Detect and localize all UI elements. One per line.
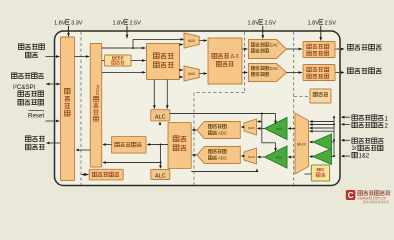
mux M2 (DAC select) <box>184 66 199 81</box>
wire HPF to PCM <box>103 144 112 146</box>
power domain dashed line 1 <box>80 32 82 185</box>
wire register config to control domain <box>82 174 89 176</box>
svg-text:MIC: MIC <box>316 167 325 172</box>
PGA amp B (right ADC) <box>265 146 288 168</box>
svg-text:ALC: ALC <box>155 173 166 179</box>
volume control block <box>168 122 191 168</box>
svg-text:MUX: MUX <box>188 72 196 76</box>
wires analog inputs <box>342 116 350 118</box>
wire volume to HPF <box>148 144 169 146</box>
wire engine to mux M1 <box>180 44 184 46</box>
wires bus into mic PGAs <box>332 141 335 143</box>
svg-text:PCM: PCM <box>95 85 100 95</box>
svg-text:2.5V: 2.5V <box>265 21 277 27</box>
wire PCM to BEEP <box>102 60 105 62</box>
mic PGA 1 <box>313 134 332 150</box>
wire to PGA B top <box>262 142 276 144</box>
wire volume control up to ALC <box>159 122 161 124</box>
svg-text:MUX: MUX <box>188 39 196 43</box>
multi-bit delta-sigma modulator <box>208 38 242 84</box>
svg-text:ADC: ADC <box>218 156 227 161</box>
wire mux MB to ADC2 <box>242 155 245 157</box>
wire modulator to DAC1 <box>242 48 248 50</box>
wire serial audio input <box>46 56 60 58</box>
signal processing engine <box>147 44 180 80</box>
label stereo input 1 <box>352 115 357 120</box>
svg-text:BEEP: BEEP <box>112 56 124 61</box>
BEEP generator <box>105 55 132 66</box>
wire PCM<-serial return <box>77 149 91 151</box>
svg-text:I²C&SPI: I²C&SPI <box>13 84 36 91</box>
PGA amp A (left ADC) <box>265 118 288 140</box>
svg-text:1.8V: 1.8V <box>248 21 260 27</box>
svg-text:3.3V: 3.3V <box>71 21 83 27</box>
wire right channel output <box>335 72 344 74</box>
wire engine down to ALC 1 <box>153 80 155 109</box>
svg-text:ADC: ADC <box>218 131 227 136</box>
wire ALC gain bus <box>170 113 276 115</box>
MIC bias block <box>311 165 329 181</box>
wire mic PGA1 to big mux <box>310 141 313 143</box>
wire left channel output <box>335 48 344 50</box>
svg-text:1.8V: 1.8V <box>113 21 125 27</box>
watermark logo eeworld <box>346 190 356 200</box>
wire mic PGA2 to big mux <box>310 156 313 158</box>
wire DAC2 to amp R <box>287 72 303 74</box>
ALC block top <box>151 110 170 121</box>
wire mux MA to ADC1 <box>242 126 245 128</box>
multi-bit oversampling ADC 1 <box>197 122 240 139</box>
svg-text:PGA: PGA <box>276 127 282 131</box>
wire mux M2 to modulator <box>199 73 207 75</box>
wires bus into big mux <box>310 121 334 123</box>
multi-bit oversampling ADC 2 <box>197 147 240 164</box>
wire DAC1 to amp L <box>287 48 303 50</box>
wire engine down to ALC 2 <box>166 80 168 109</box>
wire big mux out L to PGA A <box>289 128 296 130</box>
svg-text:Reset: Reset <box>28 113 44 120</box>
ground-centered headphone amp L <box>303 42 335 58</box>
svg-text:2.5V: 2.5V <box>130 21 142 27</box>
svg-text:MUX: MUX <box>248 155 255 159</box>
register configuration block <box>89 169 123 180</box>
chip outline U1 <box>55 31 341 186</box>
label hw mode / I2C&SPI sw mode control data <box>11 73 17 79</box>
serial interface block <box>61 37 75 181</box>
label right channel output <box>347 68 353 74</box>
wire big mux out R to PGA B <box>289 156 296 158</box>
svg-text:eeworld.com.cn: eeworld.com.cn <box>358 195 387 200</box>
wire ADC1 to volume control <box>193 129 198 131</box>
switched-capacitor DAC and filter 1 <box>249 40 287 59</box>
svg-text:DAC: DAC <box>270 66 279 71</box>
wire reset <box>46 120 60 122</box>
ground-centered headphone amp R <box>303 65 335 81</box>
power domain dashed line 2 <box>244 32 246 93</box>
mic PGA 2 <box>313 149 332 165</box>
wire bus up to mux M1 <box>132 39 134 48</box>
svg-text:3/: 3/ <box>352 146 357 152</box>
wire ADC2 to volume control <box>193 154 198 156</box>
mux M1 (DAC select) <box>184 33 199 48</box>
wire BEEP to engine <box>131 60 146 62</box>
wire PCM to engine (bus) <box>102 47 146 49</box>
wire mux M1 to modulator <box>199 40 207 42</box>
PCM interface block <box>90 44 101 168</box>
switched-capacitor DAC and filter 2 <box>249 64 287 82</box>
mux MB (ADC select R) <box>244 148 257 164</box>
wire serial audio output <box>47 142 60 144</box>
svg-text:1.8V: 1.8V <box>308 21 320 27</box>
mux MA (ADC select L) <box>244 119 257 135</box>
label stereo input 2 <box>352 122 357 127</box>
wire PGA B to mux MB <box>258 156 265 158</box>
label left channel output <box>347 44 353 50</box>
svg-text:DAC: DAC <box>270 42 279 47</box>
svg-text:ALC: ALC <box>155 114 166 120</box>
svg-text:MUX: MUX <box>248 126 255 130</box>
svg-text:2.5V: 2.5V <box>325 21 337 27</box>
wire tap to mux MA <box>261 114 263 143</box>
wire serial->PCM <box>75 56 90 58</box>
ALC block bottom <box>151 170 170 180</box>
wire down to ALC bottom <box>160 145 162 169</box>
svg-text:1&2: 1&2 <box>359 153 370 159</box>
label serial audio output <box>25 136 31 142</box>
wire MIC bias stub <box>305 173 312 175</box>
label serial audio input <box>18 44 24 50</box>
label stereo input 3 / mic input 1&2 <box>352 138 357 143</box>
svg-text:1.8V: 1.8V <box>54 21 66 27</box>
high pass filter block <box>112 137 146 154</box>
wire control data (bidirectional) <box>46 83 60 85</box>
wire modulator to DAC2 <box>242 72 248 74</box>
svg-text:Δ-Σ: Δ-Σ <box>231 54 240 60</box>
power domain dashed line 3 <box>293 32 295 185</box>
wire engine to mux M2 <box>180 69 184 71</box>
svg-text:PGA: PGA <box>276 156 282 160</box>
svg-text:MUX: MUX <box>297 142 306 147</box>
input mux (big MUX) <box>295 113 309 174</box>
wire to PCM lower <box>103 162 161 164</box>
wire input bus vertical <box>333 117 335 156</box>
wire PCM to engine lower <box>102 71 146 73</box>
charge pump <box>310 89 331 103</box>
svg-text:C: C <box>348 191 354 200</box>
wire bottom bus to PGA B <box>191 171 257 173</box>
wire PGA A to mux MA <box>258 128 265 130</box>
